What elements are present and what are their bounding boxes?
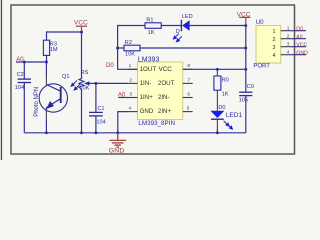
pin Q1 emitter — [45, 107, 47, 120]
wire C1 stub bottom — [95, 116, 97, 133]
svg-text:LED: LED — [182, 14, 193, 20]
junction VCC right at R2 wire — [244, 47, 247, 50]
op-amp U1 LM393 — [138, 62, 183, 120]
svg-text:LED1: LED1 — [226, 112, 243, 119]
junction C2 top / node A0 — [23, 61, 26, 64]
VCC symbol left — [76, 26, 87, 31]
svg-text:LM393: LM393 — [138, 56, 160, 63]
capacitor C0 — [239, 92, 252, 95]
svg-text:A0: A0 — [16, 57, 24, 63]
junction VCC right at LED wire — [244, 24, 247, 27]
junction R5 wiper / C1 / pin 2 — [94, 82, 97, 85]
junction GND at rail — [116, 131, 119, 134]
U0 pin numbers inside — [273, 29, 276, 59]
svg-text:GND: GND — [296, 50, 308, 56]
svg-text:C2: C2 — [17, 72, 24, 78]
svg-text:A0: A0 — [118, 92, 126, 98]
svg-text:1IN-: 1IN- — [140, 80, 152, 87]
Q1 emitter arrowhead — [47, 102, 53, 108]
resistor R0 — [214, 76, 221, 90]
svg-text:R0: R0 — [222, 77, 229, 83]
capacitor C2 — [18, 79, 31, 82]
svg-text:2: 2 — [287, 34, 290, 40]
wire LED1 to rail — [216, 129, 218, 133]
svg-text:3: 3 — [273, 45, 276, 51]
svg-text:10K: 10K — [125, 52, 135, 58]
transistor Q1 photo NPN — [39, 84, 67, 112]
svg-text:VCC: VCC — [237, 12, 251, 19]
svg-text:3: 3 — [287, 42, 290, 48]
svg-text:6: 6 — [187, 91, 190, 97]
svg-text:4: 4 — [273, 53, 276, 59]
wire pin4 to rail — [118, 112, 128, 133]
pin R0 bottom / LED1 anode — [216, 90, 218, 111]
connector U0 — [256, 26, 281, 64]
svg-text:VCC: VCC — [296, 42, 307, 48]
R5 wiper arrow — [84, 81, 90, 85]
svg-text:1K: 1K — [148, 30, 155, 36]
svg-text:10K: 10K — [79, 85, 89, 91]
svg-text:U0: U0 — [256, 19, 264, 26]
wire Q1 collector lead — [45, 62, 47, 74]
svg-text:LM393_8PIN: LM393_8PIN — [138, 120, 175, 127]
wire pot wiper to pin2 junction — [87, 82, 96, 84]
svg-text:GND: GND — [140, 108, 154, 115]
sheet border frame — [11, 5, 295, 154]
wire R2 right to riser — [140, 47, 246, 49]
svg-text:PORT: PORT — [253, 64, 270, 70]
svg-text:1M: 1M — [50, 47, 58, 53]
resistor R3 — [43, 40, 49, 55]
wire R3 bottom to A0 — [46, 55, 48, 62]
pin LED1 cathode — [216, 119, 218, 129]
U1 pin names — [140, 66, 175, 115]
ground — [110, 133, 127, 147]
wire C0 bottom stub — [245, 96, 247, 133]
svg-text:Q1: Q1 — [62, 74, 69, 80]
potentiometer R5 — [79, 79, 84, 90]
U0 external pin numbers — [287, 26, 290, 56]
wire C2 stub bottom — [23, 83, 25, 133]
svg-text:Photo NPN: Photo NPN — [34, 87, 40, 117]
sheet background — [0, 0, 320, 160]
svg-text:R2: R2 — [125, 40, 132, 46]
Q1 light arrows — [47, 81, 80, 109]
wire R2 left stub — [118, 47, 124, 49]
wire pin3 stub A0 — [118, 97, 128, 99]
wire pin2 net — [96, 82, 128, 84]
svg-text:D0: D0 — [218, 105, 225, 111]
svg-text:1: 1 — [287, 26, 290, 32]
U1 pin numbers — [129, 63, 191, 111]
U1 pins dark stubs — [128, 69, 193, 111]
svg-text:A0: A0 — [296, 34, 302, 40]
LED1 light arrows — [224, 121, 233, 129]
net labels right — [296, 26, 308, 56]
wire VCC left to R3 top — [47, 31, 82, 40]
junction R5 bottom at rail — [80, 131, 83, 134]
junction LED1 at rail — [216, 131, 219, 134]
junction VCC left riser — [80, 31, 83, 34]
svg-text:D0: D0 — [106, 63, 114, 69]
wire top riser D0 — [118, 26, 145, 70]
svg-text:1: 1 — [129, 63, 132, 69]
svg-text:RS: RS — [81, 70, 89, 76]
LED D power — [181, 20, 189, 31]
wire LED to VCC right — [190, 25, 246, 27]
svg-text:C1: C1 — [97, 106, 104, 112]
junction R0 top — [216, 68, 219, 71]
resistor R2 — [124, 45, 140, 51]
wire bottom rail — [24, 132, 246, 134]
junction R3 bottom / Q1 collector / node A0 — [45, 61, 48, 64]
svg-text:4: 4 — [129, 106, 132, 112]
svg-text:8: 8 — [187, 63, 190, 69]
wire pin8 VCC row — [183, 68, 246, 70]
svg-text:7: 7 — [187, 77, 190, 83]
svg-text:GND: GND — [109, 148, 125, 155]
junction C1 bottom at rail — [94, 131, 97, 134]
pin R0 top — [216, 69, 218, 76]
wire R1 to LED — [161, 25, 181, 27]
resistor R1 — [145, 23, 161, 29]
svg-text:VCC: VCC — [74, 19, 88, 26]
pin Q1 collector — [45, 74, 47, 85]
svg-text:VCC: VCC — [159, 66, 173, 73]
wire VCC right riser — [245, 26, 247, 93]
svg-text:1IN+: 1IN+ — [140, 94, 154, 101]
wire Q1 emitter lead lower — [45, 120, 47, 133]
svg-text:2: 2 — [129, 77, 132, 83]
LED1 D0 indicator — [210, 111, 224, 118]
junction Q1 emitter at rail — [45, 131, 48, 134]
junction R2 tap on D0 riser — [116, 47, 119, 50]
wire VCC riser to pot — [81, 32, 83, 79]
wire C1 stub top — [95, 83, 97, 112]
svg-text:4: 4 — [287, 50, 290, 56]
svg-text:C0: C0 — [247, 84, 254, 90]
junction VCC right at pin 8 wire — [244, 68, 247, 71]
left image edge line — [1, 0, 2, 160]
capacitor C1 — [89, 112, 103, 116]
svg-text:1: 1 — [273, 29, 276, 35]
wire A0 net — [16, 61, 46, 63]
svg-text:2IN+: 2IN+ — [158, 108, 172, 115]
svg-text:2IN-: 2IN- — [158, 94, 170, 101]
wire C2 stub top — [23, 62, 25, 79]
svg-text:1OUT: 1OUT — [140, 66, 157, 73]
svg-text:2OUT: 2OUT — [158, 80, 175, 87]
svg-text:1K: 1K — [222, 91, 229, 97]
svg-text:2: 2 — [273, 37, 276, 43]
svg-text:R1: R1 — [146, 18, 153, 24]
U0 pins and wires — [281, 31, 291, 55]
svg-text:D0: D0 — [296, 26, 303, 32]
wire pot bottom to rail — [81, 89, 83, 133]
VCC symbol right — [239, 17, 250, 25]
svg-text:104: 104 — [96, 120, 105, 126]
svg-text:3: 3 — [129, 91, 132, 97]
LED D light arrows — [173, 34, 181, 42]
svg-text:104: 104 — [15, 85, 24, 91]
svg-text:5: 5 — [187, 106, 190, 112]
svg-text:105: 105 — [239, 97, 248, 103]
